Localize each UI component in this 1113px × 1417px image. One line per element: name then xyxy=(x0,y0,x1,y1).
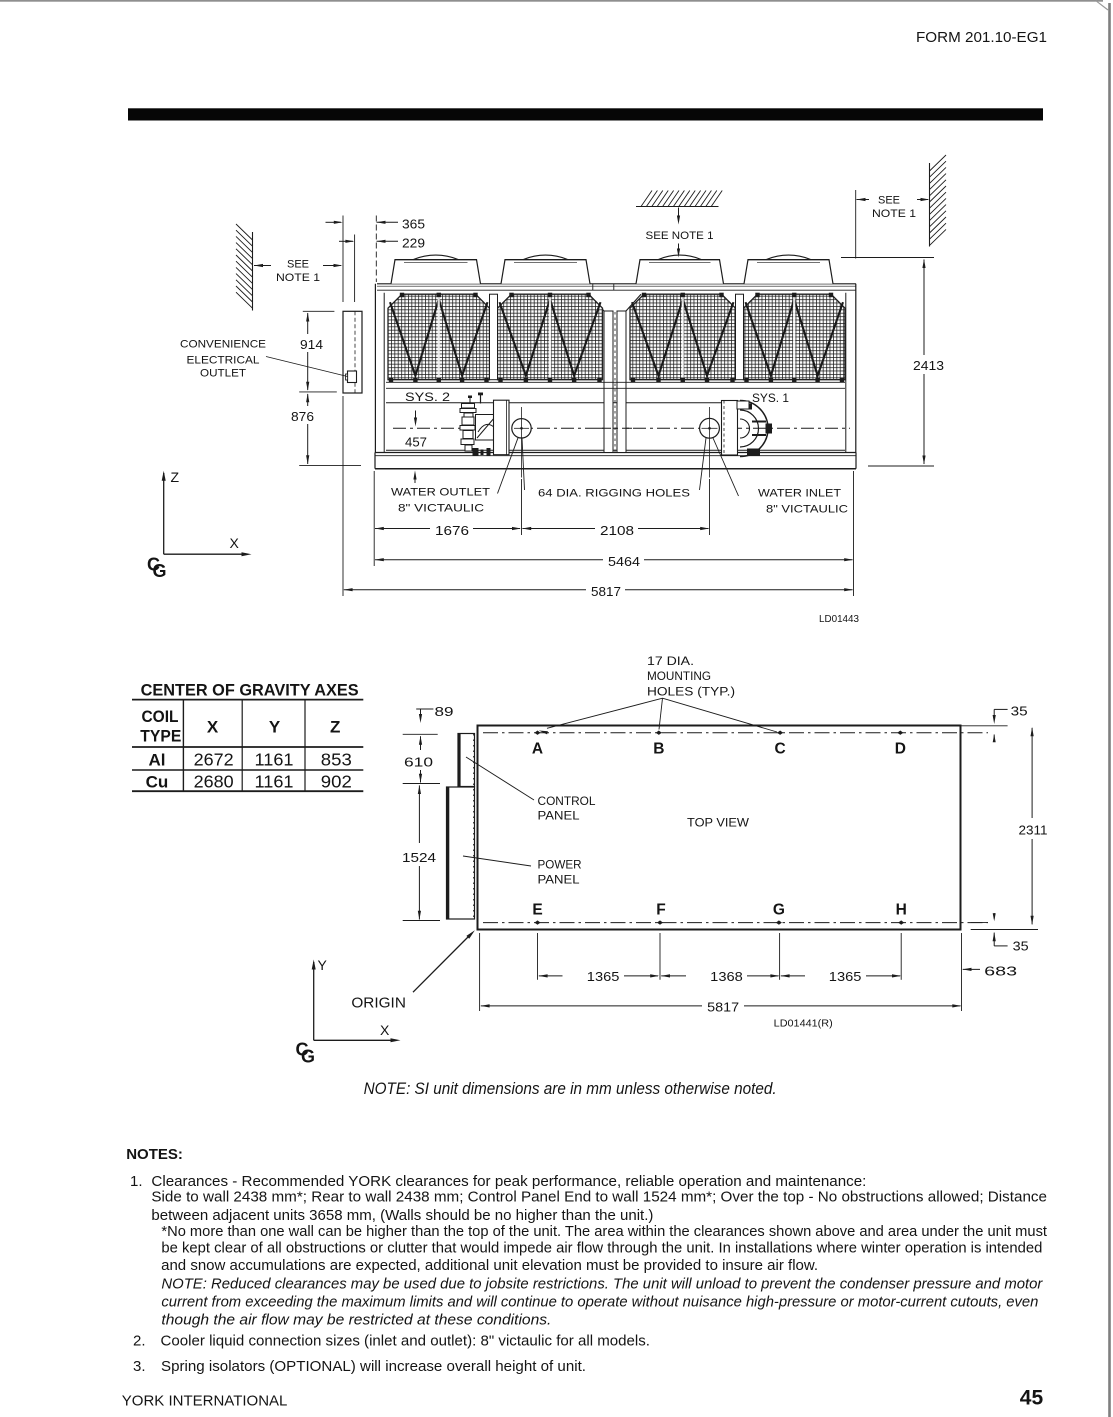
svg-text:2680: 2680 xyxy=(194,772,234,792)
svg-text:853: 853 xyxy=(321,750,352,770)
svg-text:MOUNTING: MOUNTING xyxy=(647,671,711,683)
svg-text:1368: 1368 xyxy=(710,969,743,984)
svg-text:5464: 5464 xyxy=(608,554,640,569)
svg-text:5817: 5817 xyxy=(707,999,739,1014)
svg-text:TOP VIEW: TOP VIEW xyxy=(687,815,750,829)
svg-text:Clearances - Recommended YORK: Clearances - Recommended YORK clearances… xyxy=(151,1173,866,1190)
svg-text:LD01441(R): LD01441(R) xyxy=(774,1018,833,1030)
svg-text:Side to wall 2438 mm*; Rear t: Side to wall 2438 mm*; Rear to wall 2438… xyxy=(151,1189,1047,1206)
svg-text:1161: 1161 xyxy=(255,772,294,792)
title bar xyxy=(128,108,1043,120)
svg-text:SYS. 2: SYS. 2 xyxy=(405,392,450,404)
right wall xyxy=(845,293,847,453)
svg-text:683: 683 xyxy=(984,963,1017,978)
svg-text:CENTER OF GRAVITY AXES: CENTER OF GRAVITY AXES xyxy=(141,681,359,700)
svg-text:X: X xyxy=(230,535,240,551)
ceiling hatch xyxy=(636,206,719,208)
svg-text:Y: Y xyxy=(318,957,328,973)
svg-text:B: B xyxy=(653,741,664,758)
unit outline top view xyxy=(478,726,961,930)
dim 229 xyxy=(354,235,356,303)
convenience outlet panel xyxy=(343,311,362,393)
dim 610 xyxy=(403,733,438,735)
axis X top view xyxy=(314,1039,396,1041)
svg-text:35: 35 xyxy=(1011,704,1028,718)
dim 2413 xyxy=(841,257,934,259)
svg-text:between adjacent units 3658 mm: between adjacent units 3658 mm, (Walls s… xyxy=(151,1207,653,1224)
rigging hole 1 xyxy=(521,407,523,478)
mounting holes A B C D xyxy=(535,731,541,735)
svg-text:Y: Y xyxy=(269,717,281,736)
svg-text:FORM 201.10-EG1: FORM 201.10-EG1 xyxy=(916,29,1047,46)
svg-text:WATER OUTLET: WATER OUTLET xyxy=(391,487,490,499)
svg-text:CONVENIENCE: CONVENIENCE xyxy=(180,339,266,351)
mounting holes E F G H xyxy=(535,920,541,924)
ext lines top view xyxy=(479,933,481,1011)
rigging hole 2 xyxy=(709,407,711,478)
base skid xyxy=(375,452,856,454)
dim 1365 EF xyxy=(539,974,548,977)
svg-text:NOTE: Reduced clearances may: NOTE: Reduced clearances may be used due… xyxy=(161,1276,1043,1293)
svg-text:YORK INTERNATIONAL: YORK INTERNATIONAL xyxy=(122,1392,288,1409)
svg-text:902: 902 xyxy=(321,772,352,792)
svg-text:35: 35 xyxy=(1013,940,1029,954)
dim 35 top right xyxy=(959,725,1008,727)
centerline xyxy=(393,427,850,429)
svg-text:457: 457 xyxy=(405,435,427,450)
svg-text:OUTLET: OUTLET xyxy=(200,368,246,380)
axis X side xyxy=(164,553,246,555)
svg-text:89: 89 xyxy=(435,705,454,719)
svg-text:Spring isolators (OPTIONAL) wi: Spring isolators (OPTIONAL) will increas… xyxy=(161,1358,586,1375)
coil panel 1 xyxy=(388,294,490,380)
svg-text:45: 45 xyxy=(1020,1387,1044,1410)
funnel between modules xyxy=(589,294,604,311)
dim 1365 GH xyxy=(781,974,790,977)
mounting hole centerline A-D xyxy=(483,732,988,734)
svg-text:G: G xyxy=(773,902,785,919)
svg-text:610: 610 xyxy=(404,755,433,769)
scan edge top xyxy=(0,0,1103,2)
svg-text:*No more than one wall can be: *No more than one wall can be higher tha… xyxy=(161,1223,1047,1240)
svg-text:and snow accumulations are exp: and snow accumulations are expected, add… xyxy=(161,1257,818,1274)
cooler shell xyxy=(386,402,722,404)
dim 914 xyxy=(303,310,335,312)
svg-text:1524: 1524 xyxy=(402,851,436,865)
svg-text:LD01443: LD01443 xyxy=(819,614,859,625)
fan 1 xyxy=(391,260,481,284)
mesh divider posts xyxy=(490,294,498,380)
dim 1368 FG xyxy=(661,974,670,977)
svg-text:2672: 2672 xyxy=(194,750,234,770)
svg-text:Z: Z xyxy=(171,469,180,485)
svg-text:5817: 5817 xyxy=(591,584,621,599)
svg-text:WATER INLET: WATER INLET xyxy=(758,488,841,500)
dim 683 xyxy=(963,968,972,971)
svg-text:though the air flow may be res: though the air flow may be restricted at… xyxy=(161,1312,551,1329)
svg-text:SEE: SEE xyxy=(287,259,309,271)
dim 2108 xyxy=(522,527,531,530)
dim 365 xyxy=(342,216,344,303)
svg-text:Z: Z xyxy=(330,717,340,736)
svg-text:17 DIA.: 17 DIA. xyxy=(647,656,694,668)
svg-text:current from exceeding the max: current from exceeding the maximum limit… xyxy=(161,1294,1038,1311)
coil panel 3 xyxy=(630,294,736,380)
svg-text:ELECTRICAL: ELECTRICAL xyxy=(187,355,260,367)
svg-text:A: A xyxy=(532,741,543,758)
svg-text:D: D xyxy=(895,741,906,758)
control panel xyxy=(458,734,475,787)
svg-text:2413: 2413 xyxy=(913,358,944,373)
svg-text:CONTROL: CONTROL xyxy=(538,794,596,808)
svg-text:1161: 1161 xyxy=(255,750,294,770)
dim 89 xyxy=(416,708,433,710)
svg-text:2311: 2311 xyxy=(1019,823,1048,837)
fan 4 xyxy=(744,260,833,284)
power panel xyxy=(447,787,475,919)
svg-text:PANEL: PANEL xyxy=(538,872,580,886)
right wall hatch xyxy=(929,163,931,247)
dim 2311 xyxy=(1031,727,1034,736)
svg-text:ORIGIN: ORIGIN xyxy=(351,996,406,1012)
svg-text:8" VICTAULIC: 8" VICTAULIC xyxy=(766,504,848,516)
coil panel 4 xyxy=(744,294,846,380)
coil panel 2 xyxy=(498,294,603,380)
svg-text:SYS. 1: SYS. 1 xyxy=(752,393,789,405)
svg-text:COIL: COIL xyxy=(142,707,179,726)
svg-text:POWER: POWER xyxy=(538,857,582,871)
hole leaders xyxy=(547,698,663,728)
svg-text:HOLES (TYP.): HOLES (TYP.) xyxy=(647,686,735,698)
coil bottom rail xyxy=(386,381,845,383)
svg-text:F: F xyxy=(656,902,665,919)
dim 876 xyxy=(306,393,309,402)
svg-text:X: X xyxy=(380,1022,390,1038)
svg-text:229: 229 xyxy=(402,236,425,251)
sys 2 compressor assembly xyxy=(462,404,475,409)
svg-text:8" VICTAULIC: 8" VICTAULIC xyxy=(398,503,484,515)
svg-text:Al: Al xyxy=(149,751,166,770)
svg-text:3.: 3. xyxy=(133,1358,146,1375)
svg-text:NOTE: SI unit dimensions are: NOTE: SI unit dimensions are in mm unles… xyxy=(364,1080,777,1098)
fan deck xyxy=(377,283,856,285)
axis Y xyxy=(313,962,315,1040)
left wall xyxy=(374,284,376,453)
mounting hole centerline E-H xyxy=(483,922,988,924)
left wall hatch xyxy=(252,232,254,311)
svg-text:NOTE 1: NOTE 1 xyxy=(872,208,916,220)
scan edge right xyxy=(1108,3,1111,1417)
svg-text:1676: 1676 xyxy=(435,523,469,538)
ext lines side view dims xyxy=(373,471,375,566)
center posts xyxy=(604,311,613,453)
svg-text:NOTES:: NOTES: xyxy=(126,1146,183,1163)
svg-text:2108: 2108 xyxy=(600,523,634,538)
svg-text:E: E xyxy=(532,902,542,919)
svg-text:2.: 2. xyxy=(133,1332,146,1349)
dim 5464 xyxy=(375,558,384,561)
svg-text:1365: 1365 xyxy=(587,969,620,984)
svg-text:PANEL: PANEL xyxy=(538,809,580,823)
svg-text:1.: 1. xyxy=(130,1173,143,1190)
svg-text:be kept clear of all obstruct: be kept clear of all obstructions or clu… xyxy=(161,1240,1042,1257)
svg-text:G: G xyxy=(153,561,167,581)
dim 5817 top view xyxy=(481,1004,490,1007)
fan 2 xyxy=(501,260,590,284)
svg-text:G: G xyxy=(301,1047,315,1067)
svg-text:914: 914 xyxy=(300,337,323,352)
svg-text:H: H xyxy=(896,902,907,919)
svg-text:876: 876 xyxy=(291,409,314,424)
svg-text:SEE NOTE 1: SEE NOTE 1 xyxy=(646,230,714,242)
dim 5817 xyxy=(344,588,353,591)
dim 1676 xyxy=(375,527,384,530)
axis Z xyxy=(163,473,165,554)
clearance ref line right xyxy=(855,190,857,259)
dim 35 bottom right xyxy=(971,922,988,924)
svg-text:365: 365 xyxy=(402,217,425,232)
dim 457 xyxy=(415,411,417,421)
dim 1524 xyxy=(403,920,440,922)
svg-text:NOTE 1: NOTE 1 xyxy=(276,272,320,284)
svg-text:64 DIA. RIGGING HOLES: 64 DIA. RIGGING HOLES xyxy=(538,488,690,500)
fan 3 xyxy=(636,260,724,284)
svg-text:Cu: Cu xyxy=(146,773,169,792)
svg-text:SEE: SEE xyxy=(878,195,900,207)
svg-text:1365: 1365 xyxy=(829,969,862,984)
svg-text:TYPE: TYPE xyxy=(140,726,181,745)
svg-text:C: C xyxy=(774,741,785,758)
svg-text:X: X xyxy=(207,717,219,736)
svg-text:Cooler liquid connection sizes: Cooler liquid connection sizes (inlet an… xyxy=(161,1332,651,1349)
